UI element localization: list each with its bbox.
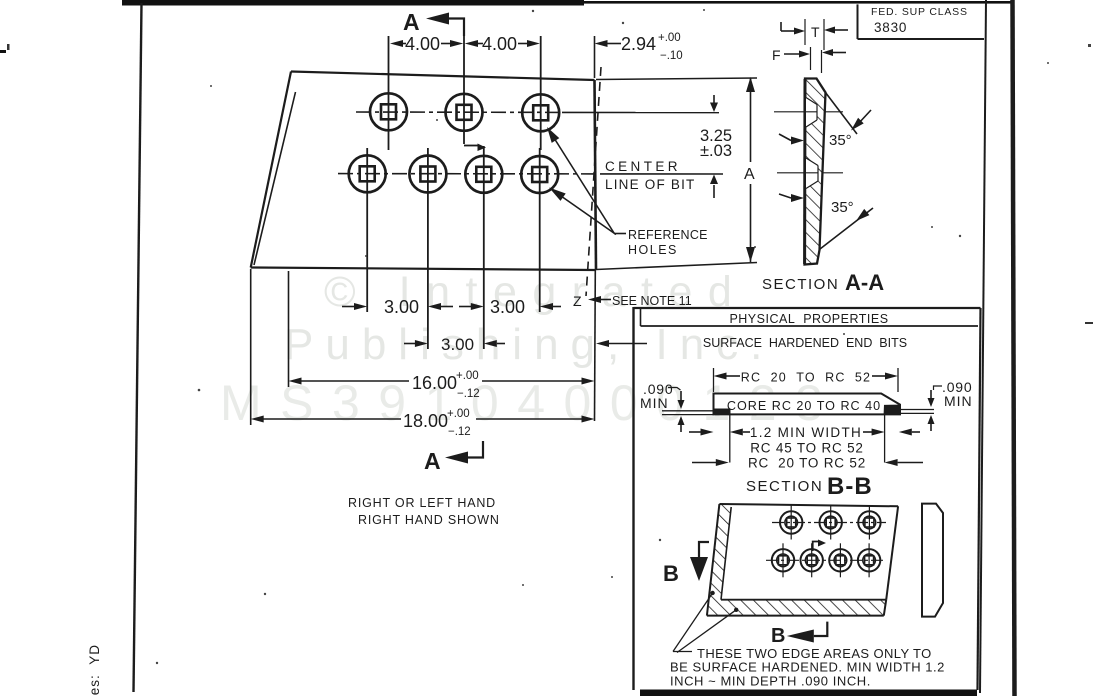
svg-text:Publishing, Inc.: Publishing, Inc. bbox=[284, 320, 774, 369]
b-plate row lines bbox=[772, 522, 886, 524]
center line of bit label bbox=[605, 159, 695, 192]
svg-text:RC 45 TO RC 52: RC 45 TO RC 52 bbox=[750, 441, 864, 456]
svg-text:PHYSICAL PROPERTIES: PHYSICAL PROPERTIES bbox=[729, 312, 888, 326]
b-plate left hatched band bbox=[707, 504, 731, 616]
b-view cut jog bbox=[813, 540, 826, 552]
section A-A center line row1 bbox=[774, 111, 817, 113]
left .090 min bbox=[640, 381, 714, 432]
sheet left border bbox=[134, 3, 142, 692]
svg-text:SECTION: SECTION bbox=[746, 478, 823, 495]
svg-text:LINE OF BIT: LINE OF BIT bbox=[605, 177, 695, 192]
edge distance arrow row2 bbox=[596, 340, 647, 347]
row 1 center line bbox=[356, 111, 562, 113]
bottom border bar bbox=[640, 690, 977, 696]
svg-text:REFERENCE: REFERENCE bbox=[628, 228, 708, 242]
dimension 3.25 arrows bbox=[700, 95, 732, 198]
dimension 16.00 bbox=[289, 271, 595, 400]
scan speck right margin bbox=[1085, 322, 1093, 324]
1.2 min width dimension bbox=[689, 414, 920, 462]
leader to reference hole T3 bbox=[547, 127, 614, 233]
svg-text:CENTER: CENTER bbox=[605, 159, 681, 174]
leader dots on hardened bands bbox=[710, 591, 714, 595]
leader to reference hole B4 bbox=[549, 188, 616, 235]
dimension 3.00 row1 right bbox=[459, 297, 561, 317]
dimension 4.00 second bbox=[465, 34, 540, 54]
section A-A title bbox=[762, 270, 884, 295]
svg-text:BE SURFACE HARDENED. MIN WIDTH: BE SURFACE HARDENED. MIN WIDTH 1.2 bbox=[670, 660, 945, 675]
angle 35 bottom bbox=[820, 199, 873, 249]
svg-text:±.03: ±.03 bbox=[700, 142, 732, 160]
svg-text:T: T bbox=[811, 24, 820, 40]
svg-text:INCH ~ MIN DEPTH .090 INCH.: INCH ~ MIN DEPTH .090 INCH. bbox=[670, 674, 871, 689]
svg-text:CORE RC 20 TO RC 40: CORE RC 20 TO RC 40 bbox=[727, 399, 881, 413]
sheet right inner border bbox=[980, 0, 986, 693]
section arrow B bottom bbox=[771, 622, 827, 647]
section arrow A top bbox=[403, 9, 464, 36]
section A-A thick left edge bbox=[803, 79, 806, 264]
dimension 3.00 row1 left bbox=[342, 297, 453, 317]
sheet right outer border bbox=[1013, 0, 1015, 696]
hole B4 bbox=[521, 156, 558, 193]
svg-text:−.12: −.12 bbox=[448, 426, 471, 438]
fed sup class box bbox=[858, 4, 985, 39]
svg-text:35°: 35° bbox=[829, 132, 852, 149]
svg-text:SURFACE HARDENED END BITS: SURFACE HARDENED END BITS bbox=[703, 336, 907, 350]
hand note bbox=[348, 496, 500, 527]
svg-text:B: B bbox=[663, 561, 679, 586]
sheet top border bar bbox=[122, 0, 584, 6]
b-hole T1 bbox=[780, 506, 802, 540]
dimension T bbox=[781, 19, 848, 50]
svg-text:A-A: A-A bbox=[845, 270, 884, 295]
svg-text:tes: YD: tes: YD bbox=[87, 644, 102, 696]
svg-text:HOLES: HOLES bbox=[628, 243, 678, 257]
b-hole B4 bbox=[858, 543, 880, 577]
section B-B title bbox=[746, 473, 873, 500]
dimension 3.00 row2 bbox=[404, 335, 505, 354]
svg-text:3.00: 3.00 bbox=[384, 297, 419, 317]
section cut jog with arrow bbox=[464, 144, 486, 152]
svg-text:35°: 35° bbox=[831, 199, 854, 216]
svg-text:RIGHT HAND SHOWN: RIGHT HAND SHOWN bbox=[358, 513, 500, 527]
svg-text:MIN: MIN bbox=[640, 395, 669, 411]
plate left bevel outer bbox=[251, 72, 291, 268]
properties box frame bbox=[634, 307, 981, 690]
hardening note bbox=[670, 646, 945, 689]
svg-text:3.00: 3.00 bbox=[441, 335, 474, 354]
hole T1 bbox=[370, 93, 407, 130]
hardened zone left bbox=[714, 409, 731, 415]
leader lines to note bbox=[673, 593, 713, 652]
dimension 18.00 bbox=[251, 269, 595, 438]
svg-text:F: F bbox=[772, 47, 781, 63]
svg-text:+.00: +.00 bbox=[658, 32, 681, 44]
reference holes label bbox=[614, 228, 708, 257]
svg-text:SECTION: SECTION bbox=[762, 276, 839, 293]
hardened zone right bbox=[884, 405, 900, 415]
core bar bbox=[714, 394, 901, 415]
hole column verticals bottom row bbox=[366, 148, 368, 312]
svg-text:B-B: B-B bbox=[827, 473, 873, 500]
plate right edge bbox=[595, 80, 597, 270]
hole column verticals top row bbox=[388, 36, 390, 150]
svg-text:MIN: MIN bbox=[944, 393, 973, 409]
svg-text:A: A bbox=[744, 166, 755, 183]
rc 20 to 52 lower dimension bbox=[692, 456, 923, 471]
svg-text:A: A bbox=[424, 448, 441, 474]
hole B3 bbox=[465, 156, 502, 193]
plate left bevel inner bbox=[254, 92, 296, 265]
angle 35 top bbox=[826, 93, 872, 150]
dimension 4.00 first bbox=[390, 34, 463, 54]
svg-text:B: B bbox=[771, 625, 785, 647]
scan speck left edge bbox=[0, 50, 6, 53]
svg-text:Z: Z bbox=[573, 293, 582, 309]
hole B1 bbox=[349, 155, 386, 192]
section arrow A bottom bbox=[424, 441, 483, 474]
Z see note 11 bbox=[573, 293, 692, 309]
hidden dashed line near right edge bbox=[586, 67, 601, 296]
b-plate bottom inner edge bbox=[721, 599, 886, 601]
rc 20 to 52 dimension bbox=[714, 368, 899, 392]
face arrow 2 bbox=[779, 194, 804, 202]
svg-text:+.00: +.00 bbox=[456, 370, 479, 382]
svg-text:FED. SUP CLASS: FED. SUP CLASS bbox=[871, 6, 968, 18]
scan noise dots bbox=[156, 9, 1049, 664]
plate right edge extension down bbox=[594, 270, 597, 421]
b-hole B2 bbox=[801, 543, 823, 577]
svg-text:3.00: 3.00 bbox=[490, 297, 525, 317]
b-plate bottom hatched band bbox=[707, 600, 886, 616]
b-plate top edge bbox=[719, 504, 898, 506]
svg-text:RC 20 TO RC 52: RC 20 TO RC 52 bbox=[748, 456, 866, 471]
dimension A vertical bbox=[596, 77, 757, 270]
right .090 min bbox=[900, 379, 973, 431]
svg-text:RC 20 TO RC 52: RC 20 TO RC 52 bbox=[741, 371, 871, 385]
plate bottom edge bbox=[251, 268, 595, 271]
svg-text:4.00: 4.00 bbox=[482, 34, 517, 54]
b-hole B3 bbox=[829, 543, 851, 577]
section arrow B top bbox=[663, 542, 709, 586]
svg-text:16.00: 16.00 bbox=[412, 373, 457, 393]
b-hole B1 bbox=[772, 543, 794, 577]
plate top edge bbox=[291, 72, 595, 81]
section A-A body bbox=[805, 79, 826, 265]
section A-A hole cutout row1 bbox=[806, 98, 817, 128]
face arrow 1 bbox=[779, 134, 804, 145]
svg-text:+.00: +.00 bbox=[447, 408, 470, 420]
svg-text:18.00: 18.00 bbox=[403, 411, 448, 431]
dimension F bbox=[772, 47, 846, 73]
b-hole T3 bbox=[858, 506, 880, 540]
svg-text:2.94: 2.94 bbox=[621, 34, 656, 54]
svg-text:RIGHT OR LEFT HAND: RIGHT OR LEFT HAND bbox=[348, 496, 496, 510]
section A-A center line row2 bbox=[777, 172, 818, 174]
hole B2 bbox=[409, 156, 446, 193]
hole T3 bbox=[522, 94, 559, 131]
b-hole T2 bbox=[820, 506, 842, 540]
svg-text:A: A bbox=[403, 9, 420, 35]
svg-text:4.00: 4.00 bbox=[405, 34, 440, 54]
svg-text:−.10: −.10 bbox=[660, 50, 683, 62]
svg-text:3830: 3830 bbox=[874, 20, 907, 35]
section A-A hole cutout row2 bbox=[806, 158, 818, 189]
b-plate right edge bbox=[886, 506, 898, 599]
row 2 center line bbox=[338, 173, 600, 175]
hole T2 bbox=[446, 94, 483, 131]
svg-text:1.2 MIN WIDTH: 1.2 MIN WIDTH bbox=[750, 425, 862, 440]
svg-text:−.12: −.12 bbox=[457, 388, 480, 400]
svg-text:SEE NOTE 11: SEE NOTE 11 bbox=[612, 294, 692, 308]
dimension 2.94 bbox=[595, 32, 683, 78]
side edge view shape bbox=[922, 504, 943, 617]
